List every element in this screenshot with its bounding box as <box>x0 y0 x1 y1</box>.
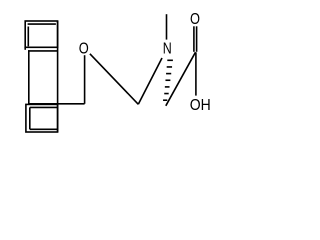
bond C-OH vertical <box>195 52 197 95</box>
ring A inner double-bond line left <box>27 27 29 47</box>
bond O-CH2 diagonal <box>90 54 138 105</box>
svg-text:O: O <box>79 41 89 58</box>
ring C inner double-bond line top <box>30 106 57 108</box>
ring right long vertical edge <box>57 21 59 132</box>
ring B left edge <box>28 50 30 103</box>
svg-text:OH: OH <box>190 97 211 114</box>
bond CH2-O vertical <box>84 55 86 104</box>
ring A inner double-bond line top <box>28 23 56 25</box>
bond C=O double line left <box>193 26 195 52</box>
ring A left edge tail into rung junction <box>24 47 26 50</box>
bond CH2-N diagonal <box>138 58 162 104</box>
bond C=O double line right <box>196 26 198 52</box>
svg-text:O: O <box>190 11 200 28</box>
ring A outer rectangle <box>25 21 57 47</box>
svg-text:N: N <box>163 41 172 58</box>
bond C*-COOH diagonal <box>166 52 196 106</box>
hashed wedge bond N-C* <box>163 60 173 100</box>
ring C inner double-bond line bottom <box>30 128 57 130</box>
ring C inner double-bond line left <box>29 107 31 129</box>
bond N-CH3 vertical <box>166 14 168 39</box>
ring B bottom edge + bond to benzylic CH2 <box>28 103 85 105</box>
ring C outer rectangle <box>26 104 58 132</box>
ring B top edge <box>28 50 58 52</box>
